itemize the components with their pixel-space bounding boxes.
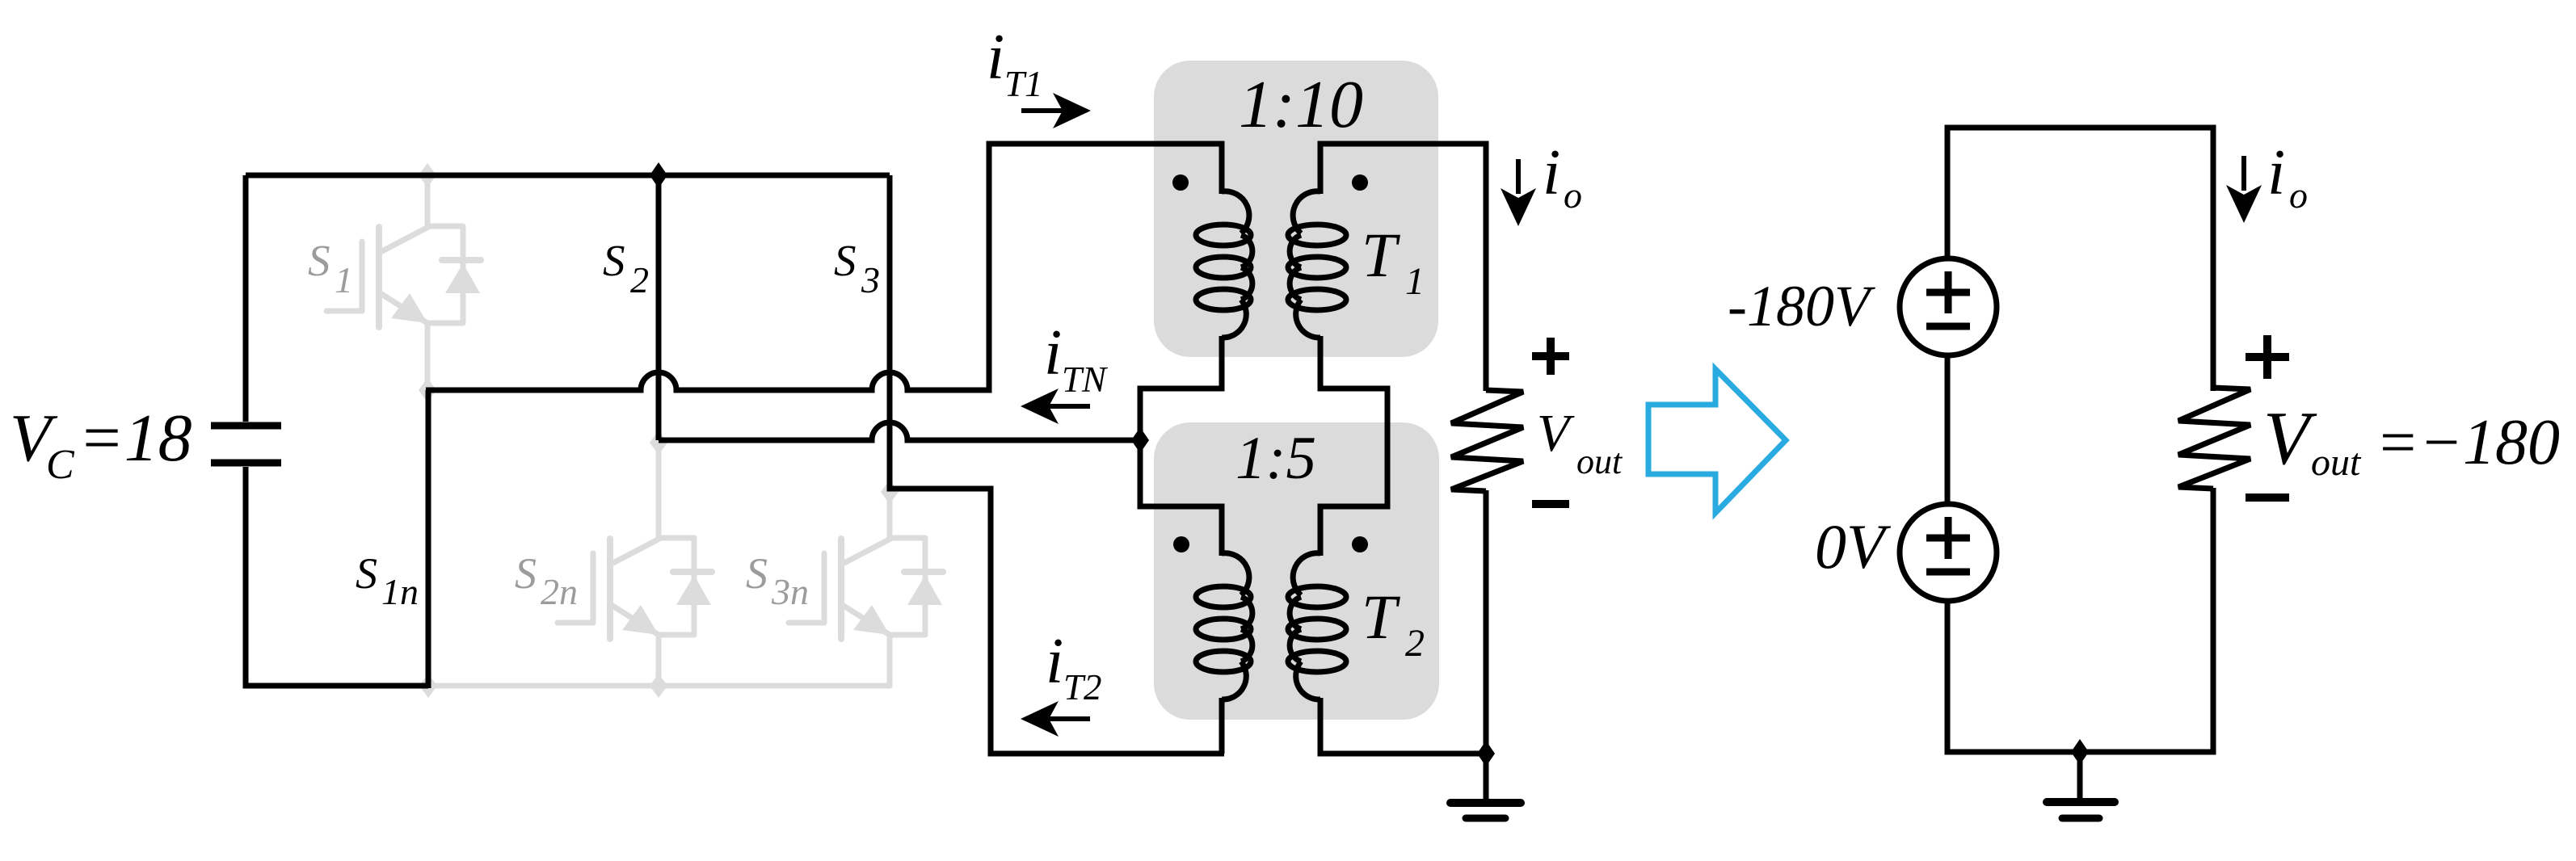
transistor S3n emitter wire — [887, 635, 893, 686]
grey switch group (off-state IGBTs) — [326, 175, 943, 686]
label S3n — [746, 549, 809, 612]
svg-text:o: o — [2289, 174, 2308, 216]
svg-text:i: i — [987, 22, 1004, 93]
grey node at S1n bottom — [419, 674, 437, 698]
transistor S1 collector wire — [425, 175, 431, 227]
current arrow io right — [2226, 156, 2262, 223]
wire T2 primary bottom — [1219, 698, 1225, 754]
S3n diode triangle — [907, 575, 942, 605]
ground (right circuit) — [2047, 802, 2115, 818]
node M (rail B to transformer primaries) — [1131, 427, 1149, 453]
label iTN — [1044, 317, 1109, 400]
svg-text:S: S — [834, 236, 857, 285]
svg-text:T2: T2 — [1063, 667, 1102, 708]
blue implication arrow — [1648, 369, 1786, 513]
label S2 — [603, 236, 649, 300]
T2 polarity dot left — [1173, 536, 1189, 552]
node ground right — [2071, 739, 2089, 765]
transistor S2n emitter wire — [656, 635, 662, 686]
label S3 — [834, 236, 880, 300]
current arrow iT2 — [1021, 701, 1090, 737]
label S1n — [356, 549, 419, 612]
svg-text:−180: −180 — [2419, 407, 2560, 478]
wire right ground stub — [2077, 752, 2083, 802]
svg-text:S: S — [356, 549, 377, 598]
label iT2 — [1046, 626, 1102, 708]
wire S2 branch and rail B — [656, 175, 662, 440]
wire S3 branch to T2 primary bottom — [890, 175, 1224, 754]
label VC=18 — [10, 401, 192, 488]
wire T1 secondary top to resistor — [1320, 144, 1486, 391]
S1 emitter arrow — [391, 293, 427, 323]
resistor Vout (right circuit) — [2178, 388, 2250, 489]
S3n emitter arrow — [853, 605, 890, 635]
svg-text:o: o — [1564, 174, 1582, 216]
wire T1 secondary bottom to T2 secondary top — [1320, 336, 1387, 556]
transformer T2 right coil — [1288, 553, 1346, 699]
label S1 — [308, 236, 353, 300]
minus sign output right — [2246, 493, 2289, 502]
svg-text:S: S — [515, 549, 537, 598]
S2n emitter arrow — [622, 605, 659, 635]
svg-text:1n: 1n — [381, 571, 419, 612]
svg-text:2n: 2n — [541, 571, 578, 612]
svg-text:=: = — [2376, 407, 2419, 478]
svg-text:V: V — [2263, 397, 2317, 481]
label T1 — [1362, 220, 1425, 303]
wire rail A with hops to T1 primary — [426, 144, 1222, 390]
grey node at S2n collector — [650, 430, 667, 455]
wire resistor bottom lead and ground stub — [1484, 490, 1489, 802]
grey filled details — [391, 163, 942, 698]
svg-text:1:5: 1:5 — [1235, 425, 1316, 492]
T1 polarity dot left — [1172, 174, 1189, 191]
current arrow iT1 — [1021, 93, 1091, 128]
svg-text:3n: 3n — [771, 571, 809, 612]
ground (left circuit) — [1450, 803, 1521, 818]
grey node at S1 collector — [419, 163, 436, 187]
transformer T1 background box — [1154, 61, 1438, 357]
svg-text:i: i — [2267, 137, 2285, 208]
transistor S2n body — [558, 538, 712, 639]
svg-text:-180V: -180V — [1728, 274, 1875, 338]
svg-text:0V: 0V — [1815, 511, 1892, 582]
wire top rail — [246, 173, 890, 178]
T1 polarity dot right — [1352, 174, 1368, 191]
svg-text:3: 3 — [861, 259, 880, 300]
current arrow iTN — [1021, 388, 1090, 424]
svg-text:T: T — [1362, 220, 1400, 290]
node ground left — [1477, 741, 1495, 766]
node S2 top — [650, 162, 667, 188]
black wiring — [246, 144, 1486, 802]
S1 diode triangle — [445, 263, 480, 293]
label io left — [1543, 137, 1582, 216]
grey node at S2n emitter — [650, 674, 667, 698]
label Vout left — [1537, 404, 1623, 481]
transformer T2 left coil — [1196, 553, 1252, 699]
svg-text:T1: T1 — [1004, 64, 1043, 104]
transistor S3n body — [789, 538, 943, 639]
voltage source -180V — [1900, 258, 1997, 355]
transformer T1 left coil — [1196, 191, 1252, 338]
transistor S2n collector wire — [656, 443, 662, 539]
wire left vertical lower — [246, 467, 428, 686]
label S2n — [515, 549, 578, 612]
svg-text:S: S — [603, 236, 625, 285]
svg-text:C: C — [46, 442, 75, 488]
right circuit wiring — [1947, 128, 2213, 802]
plus sign output left — [1532, 338, 1569, 375]
svg-text:i: i — [1044, 317, 1062, 388]
voltage source 0V — [1900, 504, 1997, 601]
wire S1n branch — [426, 390, 431, 688]
grey node at S1 emitter — [419, 378, 436, 402]
svg-text:i: i — [1543, 137, 1560, 208]
label io right — [2267, 137, 2308, 216]
T2 polarity dot right — [1352, 536, 1368, 552]
grey node at S3n collector — [881, 480, 899, 504]
svg-text:2: 2 — [1405, 622, 1425, 665]
minus sign output left — [1532, 500, 1569, 508]
svg-text:V: V — [1537, 404, 1575, 463]
current arrow io left — [1501, 159, 1536, 226]
svg-text:1:10: 1:10 — [1239, 67, 1363, 142]
wire T1 primary bottom to node M to T2 primary top — [1140, 336, 1222, 556]
resistor Vout (left circuit) — [1451, 390, 1523, 491]
wire right loop bottom — [1947, 488, 2213, 752]
label Vout = -180 — [2263, 397, 2560, 484]
transformer T2 background box — [1154, 422, 1439, 720]
S2n diode triangle — [676, 575, 711, 605]
svg-text:S: S — [308, 236, 330, 285]
wire right loop top — [1947, 128, 2213, 391]
transformer T1 right coil — [1288, 191, 1346, 338]
svg-text:out: out — [1576, 442, 1623, 481]
capacitor VC plates — [211, 426, 281, 463]
svg-text:=18: =18 — [78, 401, 192, 476]
svg-text:T: T — [1362, 582, 1400, 652]
transistor S3n collector wire — [887, 492, 893, 539]
wire left vertical upper — [243, 175, 249, 422]
svg-text:i: i — [1046, 626, 1063, 697]
svg-text:2: 2 — [630, 259, 649, 300]
wire source link — [1945, 356, 1951, 505]
svg-text:1: 1 — [1405, 260, 1425, 303]
transistor S1 body — [326, 226, 481, 327]
svg-text:TN: TN — [1062, 359, 1109, 400]
transistor S1 emitter wire — [425, 323, 431, 390]
plus sign output right — [2246, 335, 2289, 379]
svg-text:1: 1 — [335, 259, 353, 300]
label T2 — [1362, 582, 1425, 665]
grey emitter rail wire — [428, 683, 890, 689]
svg-text:S: S — [746, 549, 768, 598]
label iT1 — [987, 22, 1043, 104]
svg-text:out: out — [2311, 441, 2362, 484]
wire T2 secondary bottom rail — [1320, 698, 1486, 754]
